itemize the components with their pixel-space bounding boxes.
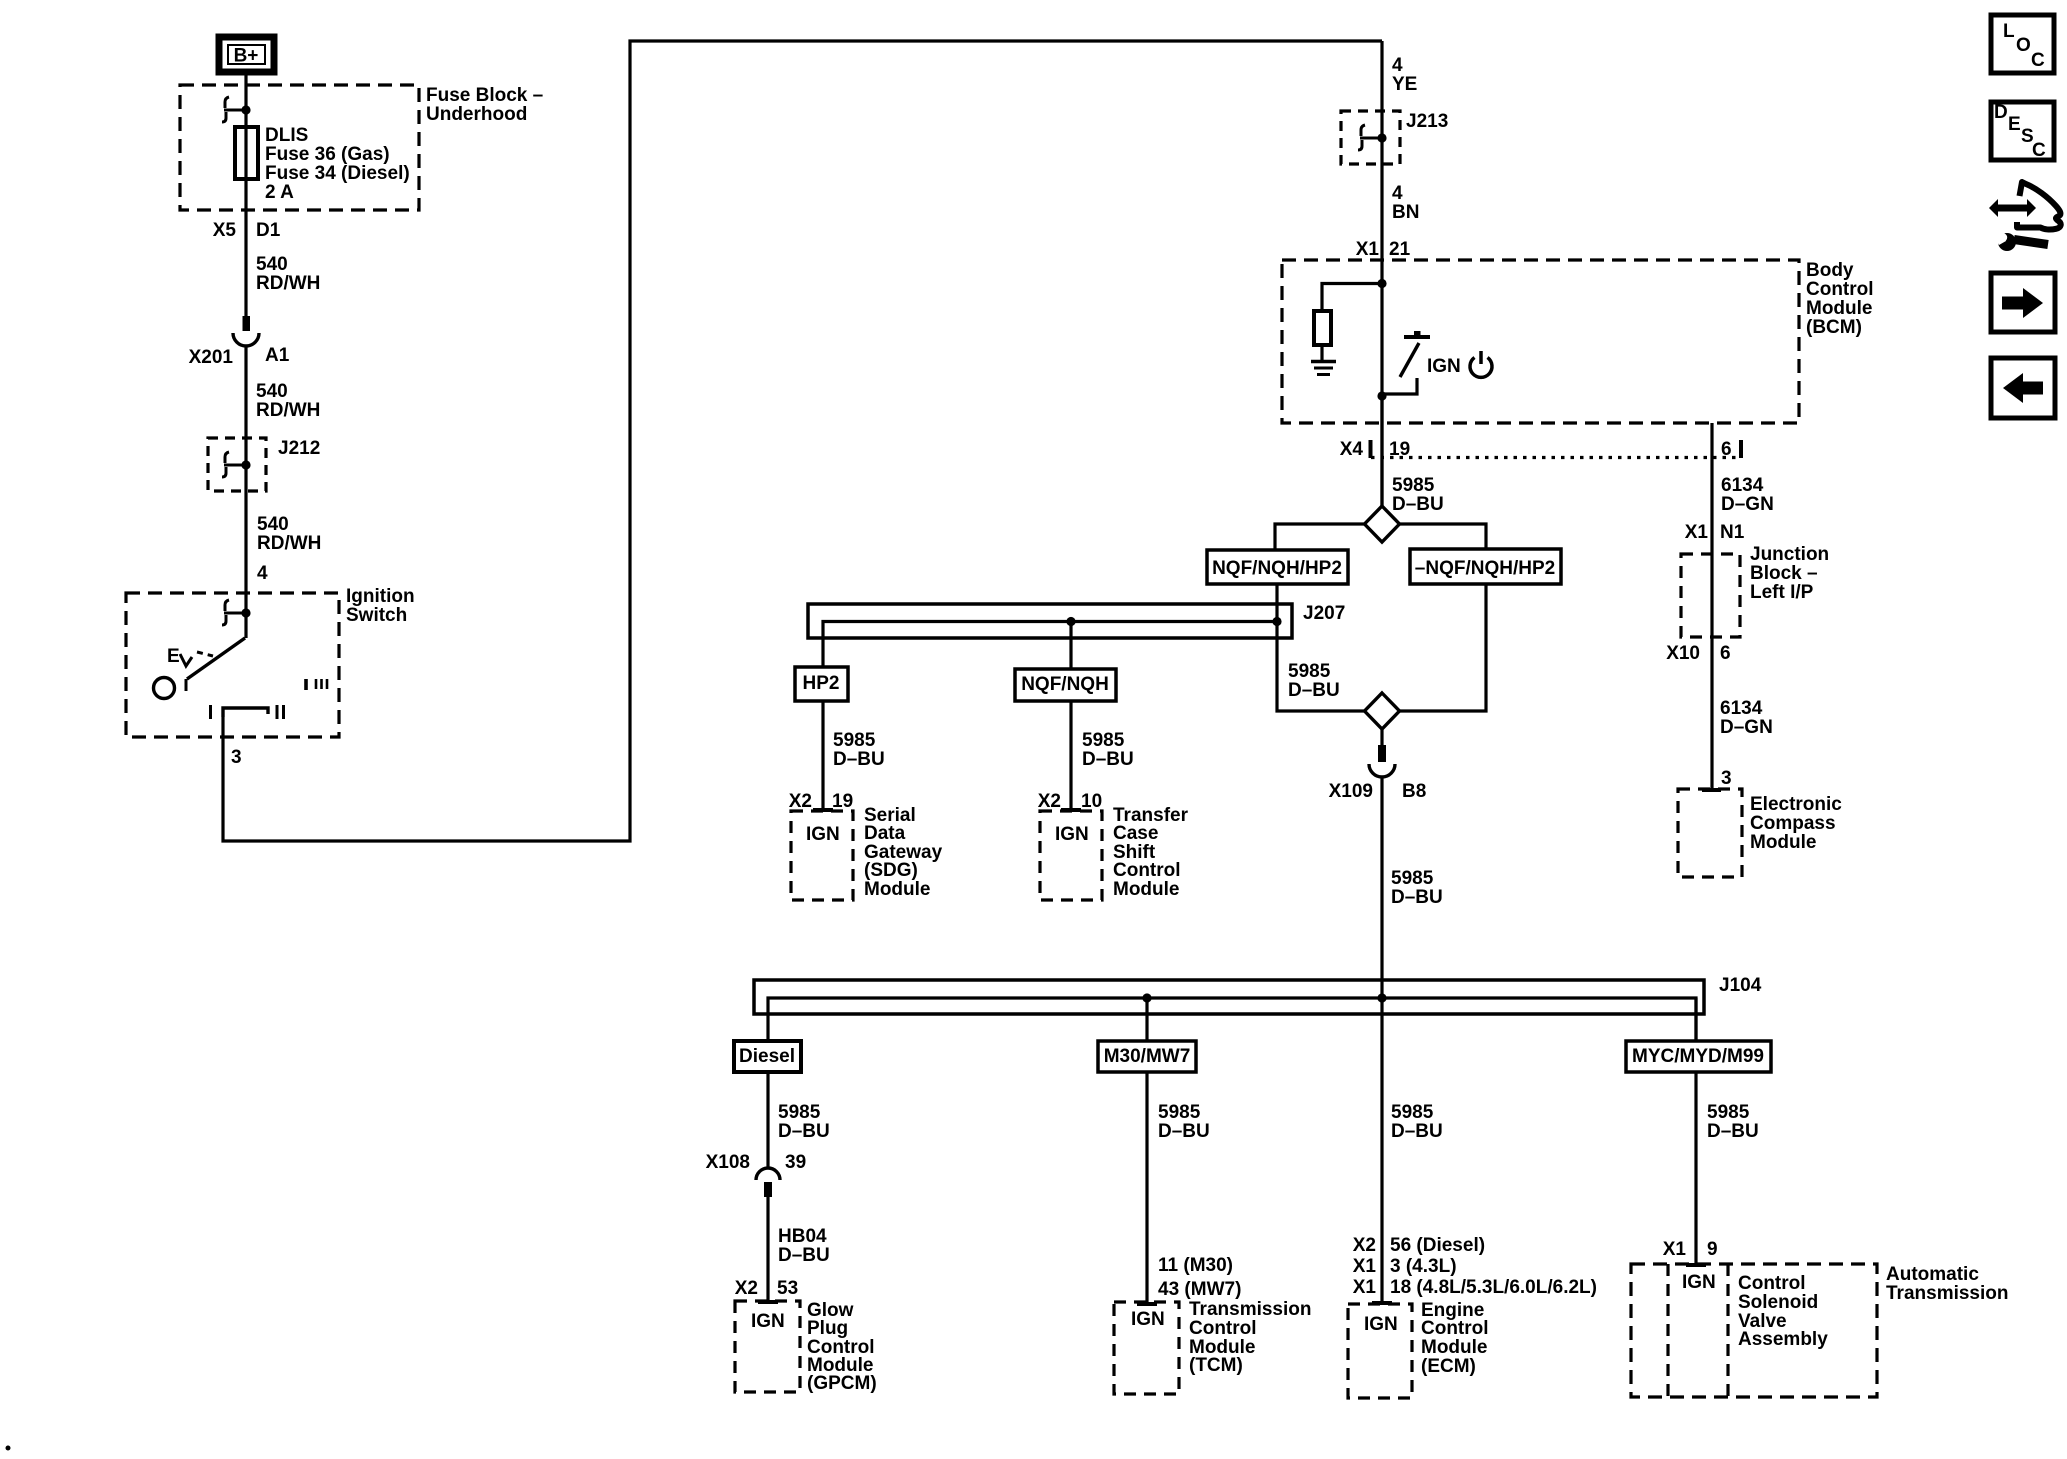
svg-text:IGN: IGN (806, 824, 840, 845)
option box NQF/NQH (1015, 669, 1116, 701)
svg-text:D–BU: D–BU (778, 1245, 830, 1266)
svg-text:21: 21 (1389, 239, 1411, 260)
svg-text:Control: Control (1189, 1318, 1257, 1339)
SDG label (864, 805, 943, 900)
transmission control module dashed box (1114, 1302, 1179, 1394)
wire -NQF side down to lower diamond (1400, 584, 1487, 711)
wire M30/MW7 down to TCM (1145, 1072, 1148, 1303)
wire to NQF/NQH/HP2 (1275, 524, 1365, 550)
svg-text:Fuse 36 (Gas): Fuse 36 (Gas) (265, 144, 390, 165)
wire BCM right output (1710, 423, 1713, 789)
svg-text:Module: Module (1750, 832, 1817, 853)
wire 540 RD/WH (256, 381, 320, 421)
svg-text:D: D (1994, 102, 2008, 123)
connector X2 pin 10 (1038, 791, 1102, 812)
option box NQF/NQH/HP2 (1207, 550, 1348, 584)
svg-text:IGN: IGN (1055, 824, 1089, 845)
svg-text:18 (4.8L/5.3L/6.0L/6.2L): 18 (4.8L/5.3L/6.0L/6.2L) (1390, 1277, 1597, 1298)
svg-text:Module: Module (864, 879, 931, 900)
connector X4 face dotted line (1371, 440, 1741, 458)
wire 540 RD/WH (256, 254, 320, 294)
svg-text:D–BU: D–BU (1158, 1121, 1210, 1142)
GPCM label (807, 1300, 877, 1394)
svg-text:D–BU: D–BU (1391, 1121, 1443, 1142)
svg-text:D–BU: D–BU (833, 749, 885, 770)
icon DESC (1991, 102, 2054, 161)
svg-text:IGN: IGN (1427, 356, 1461, 377)
junction block label (1750, 544, 1829, 603)
svg-text:E: E (2008, 114, 2021, 135)
svg-text:L: L (2003, 21, 2015, 42)
wire to pull-up resistor (1322, 284, 1382, 312)
wire HP2 down (821, 701, 824, 809)
moving contact bridge (223, 708, 268, 717)
connector X10 pin 6 (1666, 643, 1730, 664)
connector X201 pin A1 (189, 316, 290, 368)
wire NQF/NQH down (1069, 701, 1072, 809)
ignition switch blade (186, 613, 246, 691)
svg-text:B8: B8 (1402, 781, 1426, 802)
svg-text:RD/WH: RD/WH (257, 533, 321, 554)
connector X5 pin D1 (213, 220, 281, 241)
svg-text:X201: X201 (189, 347, 234, 368)
solenoid valve label (1738, 1273, 1828, 1350)
svg-text:X2: X2 (1353, 1235, 1376, 1256)
svg-text:Control: Control (1421, 1318, 1489, 1339)
svg-text:D–BU: D–BU (1392, 494, 1444, 515)
svg-text:–NQF/NQH/HP2: –NQF/NQH/HP2 (1415, 558, 1555, 579)
svg-text:DLIS: DLIS (265, 125, 308, 146)
E position marker with arrow (167, 646, 213, 667)
node: BCM switch junction (1377, 391, 1386, 400)
svg-text:3: 3 (1721, 768, 1732, 789)
ignition switch label (346, 586, 415, 626)
connector X1 pin N1 (1685, 522, 1745, 543)
wire MYC branch (1694, 998, 1697, 1041)
svg-text:Plug: Plug (807, 1318, 848, 1339)
svg-text:X1: X1 (1685, 522, 1709, 543)
svg-text:X1: X1 (1353, 1277, 1377, 1298)
svg-text:IGN: IGN (1131, 1309, 1165, 1330)
svg-text:Left I/P: Left I/P (1750, 582, 1814, 603)
option box -NQF/NQH/HP2 (1410, 549, 1561, 584)
wire 5985 D-BU label ECM (1391, 1102, 1443, 1142)
svg-text:X1: X1 (1663, 1239, 1687, 1260)
svg-text:X10: X10 (1666, 643, 1700, 664)
node on J104 bus (M30/MW7 tap) (1142, 993, 1151, 1002)
svg-text:43 (MW7): 43 (MW7) (1158, 1279, 1241, 1300)
wire from ignition switch pin 3 around to top (223, 41, 1382, 841)
terminal at compass module (1702, 788, 1721, 792)
svg-text:Ignition: Ignition (346, 586, 415, 607)
svg-text:J104: J104 (1719, 975, 1762, 996)
svg-text:Diesel: Diesel (739, 1046, 795, 1067)
svg-text:X109: X109 (1329, 781, 1373, 802)
contact I mark (209, 705, 212, 719)
page mark (6, 1446, 11, 1451)
svg-text:C: C (2032, 140, 2046, 161)
svg-text:53: 53 (777, 1278, 798, 1299)
svg-text:540: 540 (257, 514, 289, 535)
svg-text:BN: BN (1392, 202, 1419, 223)
node on J104 bus (main feed) (1377, 993, 1386, 1002)
icon LOC (1991, 15, 2054, 73)
terminal at TCM (1137, 1302, 1157, 1306)
svg-text:Fuse Block –: Fuse Block – (426, 85, 543, 106)
node on J207 bus (NQF/NQH tap) (1066, 617, 1075, 626)
svg-text:A1: A1 (265, 345, 290, 366)
svg-text:D–BU: D–BU (1391, 887, 1443, 908)
TCM label (1189, 1299, 1312, 1376)
fuse DLIS Fuse 36 (Gas) / Fuse 34 (Diesel) 2A (235, 125, 410, 203)
connector X109 pin B8 (1329, 729, 1427, 802)
svg-text:540: 540 (256, 254, 288, 275)
IGN switch sense contact in BCM (1383, 331, 1430, 394)
svg-text:Compass: Compass (1750, 813, 1836, 834)
svg-text:D–BU: D–BU (1082, 749, 1134, 770)
svg-text:J213: J213 (1406, 111, 1448, 132)
svg-text:D1: D1 (256, 220, 281, 241)
svg-text:Module: Module (1806, 298, 1873, 319)
contact III mark (306, 679, 327, 690)
ECM pin rows (1353, 1235, 1597, 1298)
svg-text:Assembly: Assembly (1738, 1329, 1828, 1350)
wire to GPCM (766, 1197, 769, 1301)
svg-text:IGN: IGN (751, 1311, 785, 1332)
svg-text:N1: N1 (1720, 522, 1745, 543)
bus wire inside J207 (823, 622, 1277, 668)
terminal at ECM (1372, 1301, 1392, 1305)
svg-text:Control: Control (1806, 279, 1874, 300)
svg-text:C: C (2031, 50, 2045, 71)
main feed wire down right side (1380, 41, 1383, 506)
connector X1 pin 9 (1663, 1239, 1718, 1260)
icon vehicle direction with wrench (1989, 182, 2061, 251)
svg-text:(GPCM): (GPCM) (807, 1373, 877, 1394)
svg-text:J212: J212 (278, 438, 320, 459)
svg-text:6134: 6134 (1721, 475, 1764, 496)
svg-text:5985: 5985 (833, 730, 876, 751)
wire 5985 D-BU label (1158, 1102, 1210, 1142)
svg-text:IGN: IGN (1682, 1272, 1716, 1293)
svg-text:5985: 5985 (1391, 1102, 1434, 1123)
svg-text:4: 4 (257, 563, 268, 584)
svg-text:Transmission: Transmission (1189, 1299, 1312, 1320)
svg-text:5985: 5985 (1158, 1102, 1201, 1123)
serial data gateway module dashed box (791, 811, 853, 900)
fuse block underhood dashed box (180, 85, 419, 210)
option box HP2 (795, 667, 848, 701)
svg-text:5985: 5985 (1082, 730, 1125, 751)
svg-text:Fuse 34 (Diesel): Fuse 34 (Diesel) (265, 163, 410, 184)
connector X4 pin 19 (1340, 439, 1410, 460)
connector X2 pin 19 (789, 791, 853, 812)
svg-text:X5: X5 (213, 220, 237, 241)
svg-text:Module: Module (1113, 879, 1180, 900)
junction block left I/P dashed box (1681, 554, 1740, 637)
ignition switch rotor circle (154, 678, 175, 699)
wire 540 RD/WH (257, 514, 321, 554)
BCM label (1806, 260, 1874, 338)
svg-text:IGN: IGN (1364, 1314, 1398, 1335)
svg-text:NQF/NQH: NQF/NQH (1021, 674, 1109, 695)
engine control module dashed box (1348, 1304, 1412, 1398)
svg-text:39: 39 (785, 1152, 806, 1173)
svg-text:D–GN: D–GN (1721, 494, 1774, 515)
svg-text:10: 10 (1081, 791, 1102, 812)
svg-text:O: O (2016, 35, 2031, 56)
terminal at GPCM (758, 1300, 778, 1304)
svg-text:HB04: HB04 (778, 1226, 827, 1247)
wire NQF/NQH branch (1069, 622, 1072, 670)
bus wire inside J104 (768, 998, 1696, 1041)
svg-text:NQF/NQH/HP2: NQF/NQH/HP2 (1212, 558, 1342, 579)
svg-text:(ECM): (ECM) (1421, 1356, 1476, 1377)
svg-text:X2: X2 (789, 791, 812, 812)
svg-text:(SDG): (SDG) (864, 860, 918, 881)
svg-text:5985: 5985 (1392, 475, 1435, 496)
svg-text:5985: 5985 (1391, 868, 1434, 889)
svg-text:MYC/MYD/M99: MYC/MYD/M99 (1632, 1046, 1764, 1067)
svg-text:X4: X4 (1340, 439, 1364, 460)
svg-text:D–BU: D–BU (1707, 1121, 1759, 1142)
svg-text:HP2: HP2 (803, 673, 840, 694)
ECM label (1421, 1300, 1489, 1377)
wire 4 BN label (1392, 183, 1419, 223)
wire 5985 D-BU label (1392, 475, 1444, 515)
splice J213 (1341, 111, 1448, 164)
wire 5985 D-BU label (1391, 868, 1443, 908)
pin 11 (M30) / 43 (MW7) labels (1158, 1255, 1241, 1300)
node: BCM input junction (1377, 279, 1386, 288)
svg-text:E: E (167, 646, 180, 667)
IGN label and power symbol (1427, 351, 1492, 377)
terminal at solenoid valve assembly (1686, 1263, 1706, 1267)
svg-text:4: 4 (1392, 183, 1403, 204)
wire resistor to ground (1320, 345, 1323, 360)
svg-text:(BCM): (BCM) (1806, 317, 1862, 338)
svg-text:19: 19 (832, 791, 853, 812)
option box Diesel (734, 1041, 801, 1072)
svg-text:Control: Control (1113, 860, 1181, 881)
svg-text:3 (4.3L): 3 (4.3L) (1390, 1256, 1457, 1277)
battery feed B+ (219, 37, 274, 72)
svg-text:D–BU: D–BU (778, 1121, 830, 1142)
svg-text:5985: 5985 (1707, 1102, 1750, 1123)
fuse block label (426, 85, 543, 125)
svg-text:X1: X1 (1356, 239, 1380, 260)
main wire down to J104 and ECM (1380, 777, 1383, 1303)
option box M30/MW7 (1098, 1041, 1196, 1072)
svg-text:M30/MW7: M30/MW7 (1104, 1046, 1191, 1067)
automatic transmission label (1886, 1264, 2009, 1304)
wire B+ to fuse block (244, 75, 247, 316)
svg-text:Electronic: Electronic (1750, 794, 1842, 815)
wire 5985 D-BU label (1707, 1102, 1759, 1142)
svg-text:5985: 5985 (778, 1102, 821, 1123)
svg-text:D–BU: D–BU (1288, 680, 1340, 701)
icon arrow right (1991, 273, 2055, 332)
svg-text:Block –: Block – (1750, 563, 1818, 584)
bus J104 (754, 975, 1762, 1014)
wire 5985 D-BU label (1082, 730, 1134, 770)
svg-text:RD/WH: RD/WH (256, 400, 320, 421)
body control module (BCM) dashed box (1282, 260, 1799, 423)
svg-text:Junction: Junction (1750, 544, 1829, 565)
wire to -NQF/NQH/HP2 (1400, 524, 1487, 549)
node on J207 bus (feed) (1272, 617, 1281, 626)
svg-text:Automatic: Automatic (1886, 1264, 1979, 1285)
wire M30/MW7 branch (1145, 998, 1148, 1041)
svg-text:Switch: Switch (346, 605, 407, 626)
wire 5985 D-BU label (833, 730, 885, 770)
ignition switch contact clip (222, 600, 251, 625)
svg-text:D–GN: D–GN (1720, 717, 1773, 738)
terminal at SDG module (813, 808, 833, 812)
electronic compass module dashed box (1678, 789, 1742, 877)
svg-text:Control: Control (1738, 1273, 1806, 1294)
control solenoid valve assembly dashed box (1631, 1264, 1877, 1397)
wire NQF/NQH/HP2 into J207 and to lower diamond (1277, 584, 1365, 711)
wire 4 YE label (1392, 55, 1417, 95)
resistor in BCM (1314, 311, 1331, 345)
svg-text:6: 6 (1721, 439, 1732, 460)
svg-text:11 (M30): 11 (M30) (1158, 1255, 1233, 1276)
svg-text:3: 3 (231, 747, 242, 768)
terminal clip in fuse block (222, 97, 251, 122)
svg-text:X2: X2 (735, 1278, 758, 1299)
wire 6134 D-GN label (1720, 698, 1773, 738)
wire 6134 D-GN label (1721, 475, 1774, 515)
glow plug control module dashed box (735, 1301, 800, 1392)
svg-text:Body: Body (1806, 260, 1854, 281)
connector X1 pin 21 (1356, 239, 1411, 260)
svg-text:56 (Diesel): 56 (Diesel) (1390, 1235, 1485, 1256)
svg-text:6: 6 (1720, 643, 1731, 664)
terminal at transfer case module (1061, 808, 1081, 812)
wire 5985 D-BU label (778, 1102, 830, 1142)
svg-text:9: 9 (1707, 1239, 1718, 1260)
wire BCM output (1380, 396, 1383, 506)
wire HB04 D-BU label (778, 1226, 830, 1266)
svg-text:J207: J207 (1303, 603, 1345, 624)
svg-text:X1: X1 (1353, 1256, 1377, 1277)
svg-text:Module: Module (1421, 1337, 1488, 1358)
connector X108 pin 39 (706, 1152, 807, 1197)
option box MYC/MYD/M99 (1626, 1041, 1771, 1072)
icon arrow left (1991, 358, 2055, 418)
svg-text:Underhood: Underhood (426, 104, 527, 125)
svg-text:Solenoid: Solenoid (1738, 1292, 1818, 1313)
splice diamond top (1365, 506, 1400, 542)
bus J207 (808, 603, 1345, 638)
svg-text:Data: Data (864, 823, 906, 844)
ignition switch dashed box (126, 593, 339, 737)
svg-text:X2: X2 (1038, 791, 1061, 812)
svg-text:2 A: 2 A (265, 182, 294, 203)
svg-text:Case: Case (1113, 823, 1158, 844)
wire Diesel down (766, 1072, 769, 1168)
wire MYC down (1694, 1072, 1697, 1265)
wire to ignition switch (244, 345, 247, 613)
transfer case shift control module dashed box (1040, 811, 1102, 900)
svg-text:Transmission: Transmission (1886, 1283, 2009, 1304)
ground (1311, 362, 1336, 375)
svg-text:X108: X108 (706, 1152, 750, 1173)
svg-text:4: 4 (1392, 55, 1403, 76)
splice J212 (208, 438, 320, 491)
svg-text:540: 540 (256, 381, 288, 402)
svg-text:5985: 5985 (1288, 661, 1331, 682)
contact II mark (277, 705, 284, 719)
svg-text:(TCM): (TCM) (1189, 1355, 1243, 1376)
splice diamond bottom (1365, 693, 1400, 729)
connector X2 pin 53 (735, 1278, 798, 1299)
compass module label (1750, 794, 1842, 853)
svg-text:YE: YE (1392, 74, 1417, 95)
svg-text:6134: 6134 (1720, 698, 1763, 719)
wire 5985 D-BU label right of J207 (1288, 661, 1340, 701)
svg-text:RD/WH: RD/WH (256, 273, 320, 294)
svg-text:B+: B+ (234, 46, 259, 67)
transfer case label (1113, 805, 1189, 900)
